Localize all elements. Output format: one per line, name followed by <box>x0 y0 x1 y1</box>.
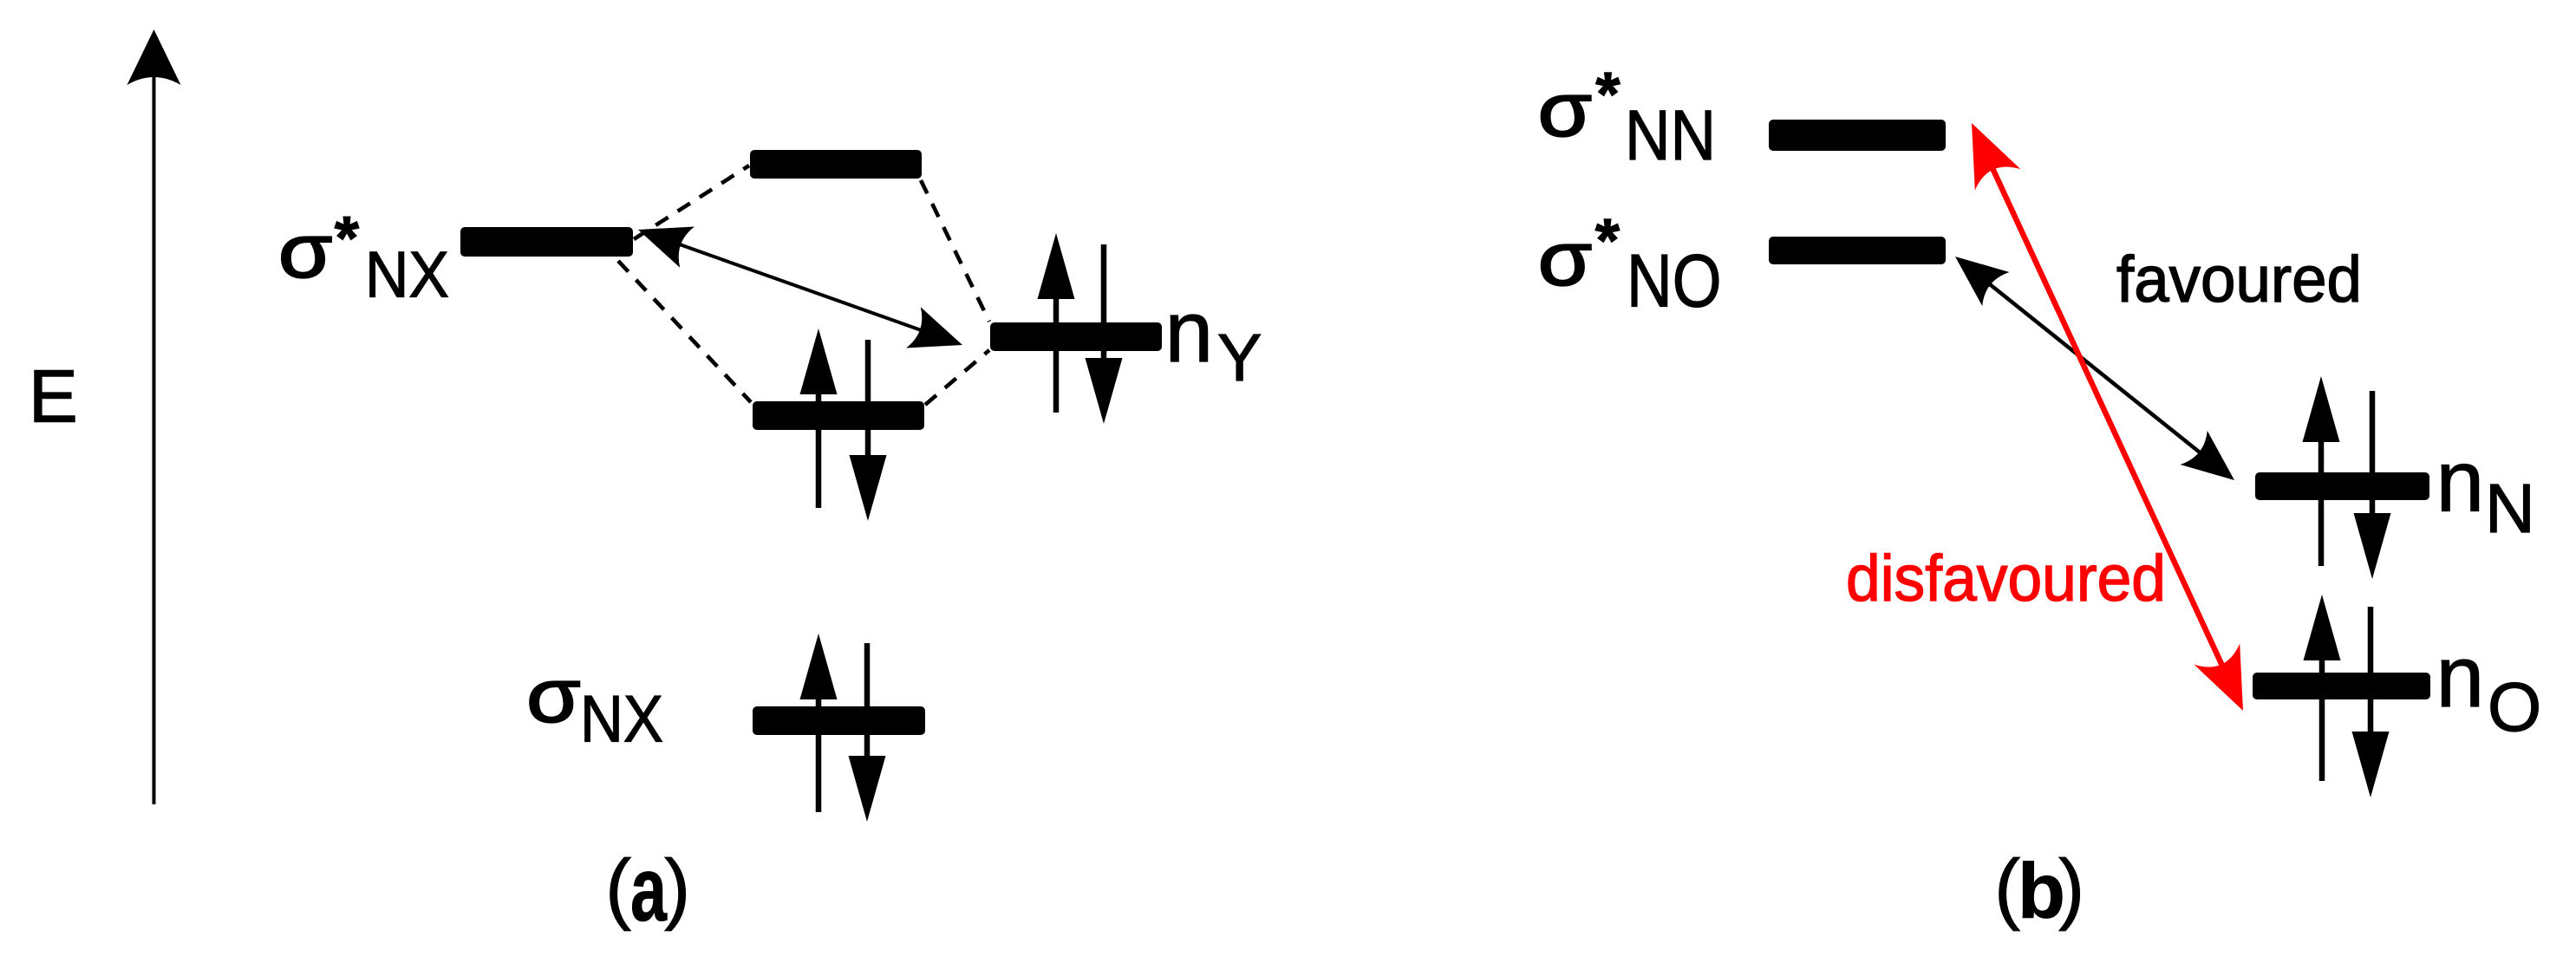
disfavoured interaction double-headed arrow sigma*NN to nO (red) <box>1988 159 2226 674</box>
svg-text:N: N <box>2485 470 2535 547</box>
dashed correlation line upper mixed level to nY <box>921 180 989 322</box>
svg-text:a: a <box>630 839 668 940</box>
dashed correlation line sigma*NX to upper mixed level <box>634 166 749 239</box>
electron pair arrows on nO level <box>2304 595 2390 797</box>
energy axis arrow E <box>127 29 181 804</box>
electron pair arrows on lower mixed bonding level <box>800 328 887 521</box>
level bar lower mixed bonding level <box>753 401 924 430</box>
svg-text:NN: NN <box>1625 96 1716 175</box>
svg-text:n: n <box>2436 433 2485 530</box>
svg-text:σ: σ <box>1538 217 1592 301</box>
svg-text:NO: NO <box>1627 240 1722 323</box>
svg-text:Y: Y <box>1217 321 1262 395</box>
level bar sigma*NO level <box>1769 237 1946 264</box>
dashed correlation line sigma*NX to lower mixed level <box>618 261 751 402</box>
label sigmaNX <box>526 654 580 738</box>
svg-text:E: E <box>29 356 78 439</box>
level bar upper mixed antibonding level <box>750 150 922 179</box>
svg-text:): ) <box>664 844 690 932</box>
svg-text:NX: NX <box>580 682 663 756</box>
label sigma*NN <box>1538 68 1592 152</box>
favoured interaction double-headed arrow sigma*NO to nN <box>1979 275 2212 461</box>
label sigma*NO <box>1538 217 1592 301</box>
svg-text:(: ( <box>605 844 631 932</box>
svg-text:favoured: favoured <box>2116 243 2362 315</box>
svg-text:σ: σ <box>278 209 332 293</box>
electron pair arrows on sigmaNX level <box>800 634 886 822</box>
level bar nY lone pair level <box>990 322 1162 351</box>
level bar nN lone pair level <box>2255 472 2429 500</box>
electron pair arrows on nY level <box>1038 233 1123 424</box>
svg-text:(: ( <box>1994 844 2020 932</box>
svg-text:σ: σ <box>1538 68 1592 152</box>
label sigma*NX <box>278 209 332 293</box>
interaction double-headed arrow nY to sigma*NX <box>666 239 935 335</box>
svg-text:n: n <box>1165 283 1214 380</box>
svg-text:σ: σ <box>526 654 580 738</box>
svg-text:O: O <box>2488 668 2541 745</box>
level bar sigmaNX level <box>753 706 925 735</box>
electron pair arrows on nN level <box>2303 376 2391 579</box>
dashed correlation line lower mixed level to nY <box>925 350 989 405</box>
svg-text:): ) <box>2058 844 2084 932</box>
level bar nO lone pair level <box>2253 673 2430 699</box>
svg-text:n: n <box>2436 628 2485 725</box>
svg-text:NX: NX <box>365 237 449 310</box>
level bar sigma*NN level <box>1769 120 1946 151</box>
level bar sigma*NX level <box>460 227 633 257</box>
svg-text:disfavoured: disfavoured <box>1846 542 2166 615</box>
